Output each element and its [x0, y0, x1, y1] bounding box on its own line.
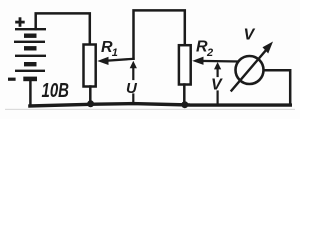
svg-text:1: 1: [112, 47, 118, 59]
svg-text:U: U: [126, 80, 138, 97]
svg-text:V: V: [211, 77, 223, 94]
svg-text:V: V: [244, 27, 256, 44]
svg-text:10В: 10В: [42, 80, 70, 102]
svg-text:2: 2: [206, 47, 213, 59]
